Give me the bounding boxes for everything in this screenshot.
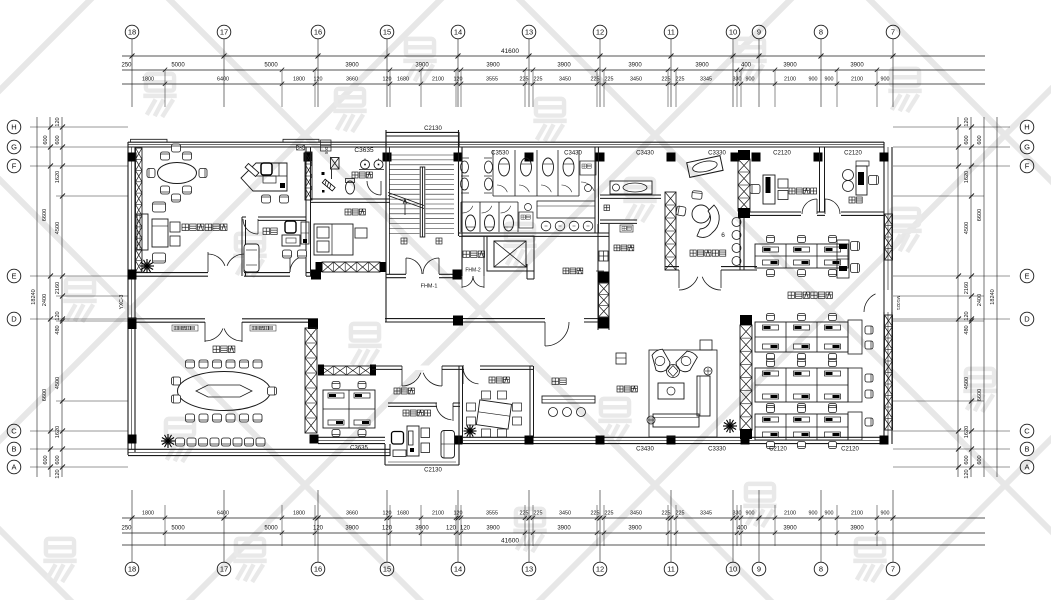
svg-text:41600: 41600 [501, 538, 519, 545]
svg-text:1680: 1680 [397, 511, 409, 517]
svg-text:120: 120 [454, 77, 463, 83]
svg-text:225: 225 [520, 77, 529, 83]
svg-text:F: F [1025, 162, 1030, 171]
svg-text:225: 225 [520, 511, 529, 517]
svg-text:225: 225 [591, 77, 600, 83]
svg-text:3900: 3900 [628, 526, 642, 532]
svg-text:10: 10 [729, 565, 737, 574]
svg-text:225: 225 [676, 511, 685, 517]
svg-text:1620: 1620 [964, 171, 970, 183]
svg-text:C3635: C3635 [354, 147, 374, 154]
svg-text:120: 120 [964, 117, 970, 126]
svg-text:G: G [1024, 143, 1030, 152]
svg-text:2400: 2400 [977, 294, 983, 306]
svg-text:6600: 6600 [977, 209, 983, 221]
svg-text:1680: 1680 [397, 77, 409, 83]
svg-text:3900: 3900 [345, 526, 359, 532]
svg-text:2400: 2400 [42, 294, 48, 306]
svg-text:C3430: C3430 [564, 151, 582, 157]
svg-text:H: H [1024, 123, 1029, 132]
svg-text:10: 10 [729, 28, 737, 37]
svg-text:3900: 3900 [486, 526, 500, 532]
svg-text:B: B [11, 445, 16, 454]
svg-text:2100: 2100 [432, 511, 444, 517]
svg-text:225: 225 [605, 511, 614, 517]
svg-text:400: 400 [741, 63, 752, 69]
svg-text:900: 900 [825, 511, 834, 517]
svg-text:3900: 3900 [783, 526, 797, 532]
svg-text:330: 330 [733, 511, 742, 517]
svg-text:8: 8 [819, 565, 823, 574]
svg-text:3900: 3900 [486, 63, 500, 69]
svg-text:6600: 6600 [977, 389, 983, 401]
svg-text:13: 13 [525, 28, 533, 37]
svg-text:6400: 6400 [217, 511, 229, 517]
svg-text:6600: 6600 [42, 209, 48, 221]
svg-text:900: 900 [809, 511, 818, 517]
svg-text:5000: 5000 [264, 526, 278, 532]
svg-text:1620: 1620 [964, 426, 970, 438]
svg-text:400: 400 [737, 526, 748, 532]
svg-text:E: E [11, 272, 16, 281]
svg-text:3900: 3900 [345, 63, 359, 69]
svg-text:120: 120 [55, 311, 61, 320]
svg-text:C3430: C3430 [636, 151, 654, 157]
svg-text:C3330: C3330 [708, 447, 726, 453]
svg-text:900: 900 [881, 77, 890, 83]
svg-text:3450: 3450 [630, 511, 642, 517]
svg-text:225: 225 [534, 77, 543, 83]
svg-text:D: D [11, 315, 17, 324]
svg-text:9: 9 [757, 28, 761, 37]
svg-text:3660: 3660 [346, 511, 358, 517]
svg-text:900: 900 [809, 77, 818, 83]
svg-text:600: 600 [964, 455, 970, 464]
svg-text:9: 9 [757, 565, 761, 574]
svg-text:16: 16 [314, 565, 322, 574]
svg-text:4500: 4500 [964, 222, 970, 234]
svg-text:7: 7 [891, 28, 895, 37]
svg-text:3450: 3450 [559, 77, 571, 83]
svg-text:12: 12 [596, 28, 604, 37]
svg-text:18: 18 [128, 28, 136, 37]
svg-text:3900: 3900 [850, 526, 864, 532]
svg-text:120: 120 [313, 526, 324, 532]
svg-text:1800: 1800 [142, 77, 154, 83]
svg-text:600: 600 [55, 135, 61, 144]
svg-text:7: 7 [891, 565, 895, 574]
svg-text:11: 11 [667, 28, 675, 37]
svg-text:225: 225 [662, 511, 671, 517]
svg-text:120: 120 [460, 526, 471, 532]
svg-text:3900: 3900 [557, 526, 571, 532]
svg-text:1800: 1800 [293, 511, 305, 517]
svg-text:16: 16 [314, 28, 322, 37]
svg-text:900: 900 [746, 511, 755, 517]
svg-text:120: 120 [314, 77, 323, 83]
svg-text:500: 500 [324, 146, 329, 154]
svg-text:18240: 18240 [990, 289, 996, 305]
svg-text:C3330: C3330 [708, 151, 726, 157]
svg-text:120: 120 [964, 311, 970, 320]
svg-text:3900: 3900 [850, 63, 864, 69]
svg-text:2100: 2100 [784, 511, 796, 517]
svg-text:FHM-1: FHM-1 [421, 284, 438, 290]
svg-text:225: 225 [534, 511, 543, 517]
svg-text:C: C [11, 427, 17, 436]
svg-text:480: 480 [964, 325, 970, 334]
svg-text:8: 8 [819, 28, 823, 37]
svg-text:3900: 3900 [628, 63, 642, 69]
svg-text:15: 15 [383, 28, 391, 37]
svg-text:900: 900 [746, 77, 755, 83]
svg-text:4500: 4500 [964, 377, 970, 389]
svg-text:2100: 2100 [784, 77, 796, 83]
svg-text:YXC-3: YXC-3 [119, 294, 125, 309]
svg-text:C3530: C3530 [491, 151, 509, 157]
svg-text:3450: 3450 [630, 77, 642, 83]
svg-text:120: 120 [383, 77, 392, 83]
svg-text:250: 250 [121, 526, 132, 532]
svg-text:15: 15 [383, 565, 391, 574]
svg-text:3900: 3900 [557, 63, 571, 69]
svg-text:1800: 1800 [142, 511, 154, 517]
svg-text:18240: 18240 [31, 289, 37, 305]
svg-text:E: E [1024, 272, 1029, 281]
svg-text:3900: 3900 [695, 63, 709, 69]
svg-text:13: 13 [525, 565, 533, 574]
svg-text:C3430: C3430 [636, 447, 654, 453]
svg-text:F: F [12, 162, 17, 171]
svg-text:C2120: C2120 [769, 447, 787, 453]
svg-text:18: 18 [128, 565, 136, 574]
svg-text:900: 900 [881, 511, 890, 517]
svg-text:1620: 1620 [55, 171, 61, 183]
svg-text:C3635: C3635 [350, 446, 368, 452]
svg-text:17: 17 [220, 565, 228, 574]
svg-text:41600: 41600 [501, 48, 519, 55]
svg-text:M1021: M1021 [895, 296, 901, 311]
svg-text:C: C [1024, 427, 1030, 436]
svg-text:250: 250 [121, 63, 132, 69]
svg-text:C2130: C2130 [424, 126, 442, 132]
svg-text:600: 600 [55, 455, 61, 464]
svg-text:3555: 3555 [486, 77, 498, 83]
svg-text:1620: 1620 [55, 426, 61, 438]
svg-text:FHM-2: FHM-2 [465, 268, 480, 274]
svg-text:D: D [1024, 315, 1030, 324]
svg-text:C2120: C2120 [844, 151, 862, 157]
svg-text:3345: 3345 [700, 77, 712, 83]
svg-text:2100: 2100 [851, 511, 863, 517]
svg-text:120: 120 [446, 526, 457, 532]
svg-text:14: 14 [454, 28, 462, 37]
svg-text:225: 225 [591, 511, 600, 517]
svg-text:120: 120 [964, 469, 970, 478]
svg-text:120: 120 [55, 469, 61, 478]
svg-text:3450: 3450 [559, 511, 571, 517]
svg-text:5000: 5000 [171, 526, 185, 532]
svg-text:6400: 6400 [217, 77, 229, 83]
svg-text:900: 900 [825, 77, 834, 83]
svg-text:11: 11 [667, 565, 675, 574]
svg-text:5000: 5000 [264, 63, 278, 69]
svg-text:480: 480 [55, 325, 61, 334]
svg-text:120: 120 [454, 511, 463, 517]
svg-text:C2130: C2130 [424, 468, 442, 474]
svg-text:600: 600 [964, 135, 970, 144]
svg-text:C2120: C2120 [773, 151, 791, 157]
svg-text:600: 600 [977, 455, 983, 464]
svg-text:225: 225 [676, 77, 685, 83]
svg-text:3900: 3900 [783, 63, 797, 69]
svg-text:12: 12 [596, 565, 604, 574]
svg-text:B: B [1024, 445, 1029, 454]
svg-text:120: 120 [382, 526, 393, 532]
svg-text:330: 330 [733, 77, 742, 83]
svg-text:4500: 4500 [55, 377, 61, 389]
svg-text:3660: 3660 [346, 77, 358, 83]
svg-text:H: H [11, 123, 16, 132]
svg-text:3555: 3555 [486, 511, 498, 517]
svg-text:2160: 2160 [964, 282, 970, 294]
svg-text:4500: 4500 [55, 222, 61, 234]
svg-text:600: 600 [977, 135, 983, 144]
svg-text:3345: 3345 [700, 511, 712, 517]
svg-text:2100: 2100 [432, 77, 444, 83]
svg-text:2100: 2100 [851, 77, 863, 83]
svg-text:17: 17 [220, 28, 228, 37]
svg-text:225: 225 [662, 77, 671, 83]
svg-text:600: 600 [43, 455, 49, 464]
svg-text:C2120: C2120 [841, 447, 859, 453]
svg-text:A: A [1024, 463, 1029, 472]
svg-text:225: 225 [605, 77, 614, 83]
svg-text:6: 6 [721, 232, 725, 239]
svg-text:120: 120 [55, 117, 61, 126]
svg-text:2160: 2160 [55, 282, 61, 294]
svg-text:1800: 1800 [293, 77, 305, 83]
svg-text:600: 600 [43, 135, 49, 144]
svg-text:G: G [11, 143, 17, 152]
svg-text:120: 120 [383, 511, 392, 517]
svg-text:14: 14 [454, 565, 462, 574]
svg-text:6600: 6600 [42, 389, 48, 401]
svg-text:A: A [11, 463, 16, 472]
svg-text:3900: 3900 [415, 526, 429, 532]
svg-text:5000: 5000 [171, 63, 185, 69]
svg-text:3900: 3900 [415, 63, 429, 69]
